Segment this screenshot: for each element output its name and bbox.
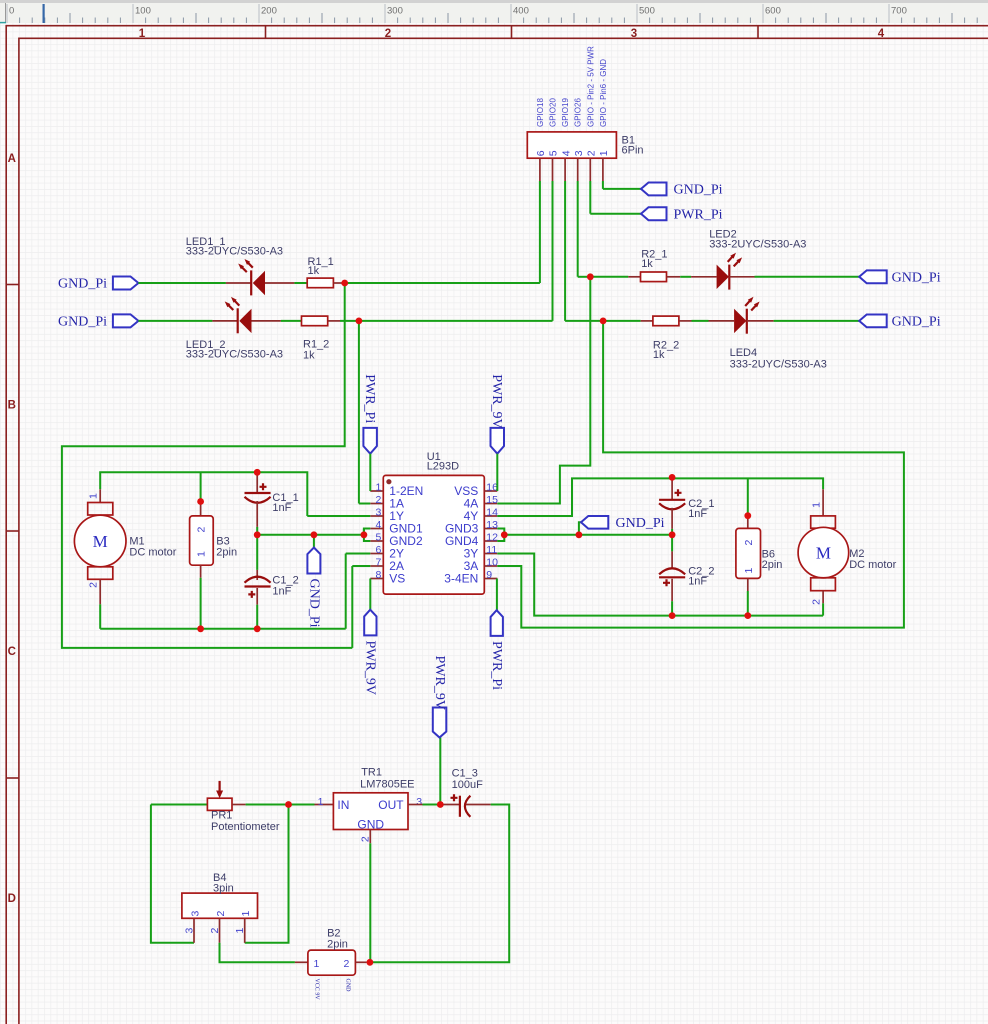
wire left loop to PR1 xyxy=(151,804,208,806)
wire 4A net (row1 right to U1 pin15) xyxy=(497,277,590,504)
U1 pin 4 stub xyxy=(370,528,383,530)
wire to PWR_9V flag xyxy=(439,738,441,805)
svg-text:5: 5 xyxy=(548,150,560,156)
svg-text:1: 1 xyxy=(810,502,822,508)
svg-text:PR1: PR1 xyxy=(211,809,232,821)
svg-text:400: 400 xyxy=(513,6,529,17)
flag GND_Pi (row2 left) xyxy=(113,314,138,327)
U1 pin 13 stub xyxy=(484,528,497,530)
svg-text:1k: 1k xyxy=(303,350,315,362)
svg-text:6: 6 xyxy=(535,150,547,156)
wire outer loop left (R1_1 to U1 pin7) xyxy=(62,283,352,648)
wire 2A from outer loop xyxy=(352,565,370,567)
B1 pin 4 stub xyxy=(564,158,566,181)
wire row2 to B1 pin5 xyxy=(359,320,553,322)
U1 GND3/GND4 tie xyxy=(497,529,504,542)
flag PWR_Pi (top) xyxy=(641,207,667,220)
svg-text:4: 4 xyxy=(375,519,381,531)
wire to PWR_Pi flag xyxy=(590,213,641,215)
U1 pin 8 stub xyxy=(370,578,383,580)
svg-text:2: 2 xyxy=(209,928,221,934)
svg-text:13: 13 xyxy=(486,519,498,531)
junction B3 pin1 xyxy=(197,625,204,632)
svg-text:500: 500 xyxy=(639,6,655,17)
junction B3 pin2 xyxy=(197,498,204,505)
wire M1 bottom net xyxy=(100,628,346,630)
flag GND_Pi (left motor section) xyxy=(313,535,315,548)
frame column dividers xyxy=(265,26,267,39)
junction row1 right xyxy=(587,273,594,280)
svg-text:333-2UYC/S530-A3: 333-2UYC/S530-A3 xyxy=(186,348,283,360)
svg-text:5: 5 xyxy=(375,532,381,544)
U1 orientation dot xyxy=(386,479,391,484)
svg-text:3: 3 xyxy=(631,28,637,40)
wire row1 to B1 pin6 xyxy=(345,282,540,284)
svg-text:11: 11 xyxy=(486,544,497,556)
PR1 wiper arrow xyxy=(219,781,221,793)
svg-text:8: 8 xyxy=(375,569,381,581)
LED1_2 arrow 2 xyxy=(227,304,233,310)
U1 pin 5 stub xyxy=(370,540,383,542)
wire PR1 to TR1 xyxy=(246,804,289,806)
wire LED2 to GND flag xyxy=(755,276,860,278)
svg-text:2: 2 xyxy=(810,599,822,605)
svg-text:2: 2 xyxy=(385,28,391,40)
capacitor C2_1 1nF xyxy=(671,477,673,499)
B4 pin 3 stub xyxy=(193,918,195,943)
svg-text:D: D xyxy=(8,893,16,905)
svg-text:1nF: 1nF xyxy=(688,575,707,587)
svg-text:1k: 1k xyxy=(653,349,665,361)
U1 pin 6 stub xyxy=(370,553,383,555)
svg-text:1nF: 1nF xyxy=(272,502,291,514)
ruler background xyxy=(0,0,988,23)
svg-text:2pin: 2pin xyxy=(327,938,348,950)
svg-text:7: 7 xyxy=(375,557,381,569)
B1 pin 6 stub xyxy=(539,158,541,181)
svg-text:14: 14 xyxy=(486,507,498,519)
svg-text:1k: 1k xyxy=(641,258,653,270)
svg-text:TR1: TR1 xyxy=(361,767,382,779)
wire B1 pin5 down xyxy=(552,181,554,321)
B1 pin 5 stub xyxy=(552,158,554,181)
wire B6 pin2 up xyxy=(747,478,749,515)
capacitor C1_2 1nF xyxy=(256,535,258,570)
wire R2_1 to LED2 xyxy=(680,276,691,278)
B1 pin 1 stub xyxy=(602,158,604,181)
flag PWR_9V (above U1 pin16) xyxy=(491,428,505,454)
wire R1_2 net to U1 pin2 xyxy=(358,321,360,504)
svg-text:3: 3 xyxy=(189,911,201,917)
svg-text:VS: VS xyxy=(389,572,405,586)
wire flag to U1 pin1 xyxy=(369,454,371,491)
svg-text:100: 100 xyxy=(135,6,151,17)
motor M1 xyxy=(99,489,101,502)
U1 pin 9 stub xyxy=(484,578,497,580)
flag GND_Pi (row1 left) xyxy=(113,277,138,290)
svg-text:GND_Pi: GND_Pi xyxy=(674,183,723,198)
junction row2/R1_2 xyxy=(356,318,363,325)
LED LED1_1 xyxy=(226,282,251,284)
frame row dividers xyxy=(6,284,19,286)
LED2 arrow 1 xyxy=(728,255,734,262)
wire to R2_2 xyxy=(603,320,641,322)
ruler cursor mark xyxy=(43,4,45,23)
svg-text:GPIO20: GPIO20 xyxy=(549,98,558,127)
wire B1 pin4 to junction xyxy=(565,320,603,322)
C1_3 plus sign xyxy=(451,794,458,801)
svg-text:GND_Pi: GND_Pi xyxy=(892,315,941,330)
flag GND_Pi (right of U1) xyxy=(581,516,608,529)
IC U1 L293D xyxy=(383,475,484,594)
resistor R2_1 1k xyxy=(628,276,640,278)
wire U1 pin8 down xyxy=(369,579,371,610)
svg-text:333-2UYC/S530-A3: 333-2UYC/S530-A3 xyxy=(186,245,283,257)
svg-text:1: 1 xyxy=(196,551,208,557)
C1_1 plus sign xyxy=(260,483,267,490)
flag GND_Pi (top) xyxy=(641,183,667,196)
ruler ticks xyxy=(6,4,8,23)
svg-text:1nF: 1nF xyxy=(688,508,707,520)
flag GND_Pi (row1 right) xyxy=(859,270,887,283)
junction row2 right xyxy=(600,318,607,325)
LED1_2 arrow 1 xyxy=(233,299,239,305)
svg-text:GND: GND xyxy=(345,979,351,993)
svg-text:6Pin: 6Pin xyxy=(622,144,644,156)
wire row1 left xyxy=(138,282,226,284)
junction row1/R1_1 xyxy=(341,280,348,287)
wire M1 top net xyxy=(100,472,307,516)
wire to GND_Pi flag xyxy=(603,188,641,190)
U1 pin 16 stub xyxy=(484,490,497,492)
resistor R2_2 1k xyxy=(641,320,653,322)
svg-text:Potentiometer: Potentiometer xyxy=(211,821,280,833)
svg-text:3: 3 xyxy=(573,150,585,156)
wire M2 pin2 down xyxy=(822,603,824,615)
LED LED1_2 xyxy=(212,320,237,322)
wire M1 pin2 down xyxy=(99,604,101,629)
svg-text:DC motor: DC motor xyxy=(849,559,896,571)
svg-text:VCC 9V: VCC 9V xyxy=(314,979,320,1001)
svg-text:PWR_9V: PWR_9V xyxy=(489,374,504,428)
wire LED1_2 to R1_2 xyxy=(281,320,302,322)
wire flag to U1 pin16 xyxy=(496,454,498,491)
svg-text:GND_Pi: GND_Pi xyxy=(892,271,941,286)
U1 pin 14 stub xyxy=(484,515,497,517)
wire 1Y to M1 top net xyxy=(307,515,370,517)
wire B1 pin2 down xyxy=(589,181,591,214)
junction PR1/TR1/B4 xyxy=(285,801,292,808)
svg-text:GND_Pi: GND_Pi xyxy=(306,579,321,628)
svg-text:333-2UYC/S530-A3: 333-2UYC/S530-A3 xyxy=(730,358,827,370)
svg-text:2pin: 2pin xyxy=(762,559,783,571)
TR1 GND pin stub xyxy=(369,830,371,844)
wire B3 pin1 down xyxy=(200,578,202,629)
resistor R1_2 1k xyxy=(302,316,328,326)
U1 pin 12 stub xyxy=(484,540,497,542)
svg-text:PWR_Pi: PWR_Pi xyxy=(489,641,504,690)
junction C1_1 top xyxy=(254,469,261,476)
svg-text:3: 3 xyxy=(416,796,422,808)
svg-text:LED4: LED4 xyxy=(730,347,758,359)
svg-text:2: 2 xyxy=(196,527,208,533)
svg-text:M: M xyxy=(816,543,831,562)
svg-text:GND_Pi: GND_Pi xyxy=(616,516,665,531)
wire B4 pin1 riser xyxy=(245,805,289,943)
svg-text:GPIO - Pin2 - 5V PWR: GPIO - Pin2 - 5V PWR xyxy=(586,46,595,127)
LED LED2 xyxy=(691,276,717,278)
svg-text:2: 2 xyxy=(375,494,381,506)
LED4 arrow 2 xyxy=(751,304,757,311)
junction C2_2 bottom xyxy=(669,612,676,619)
svg-text:2: 2 xyxy=(88,582,100,588)
capacitor C1_3 100uF xyxy=(440,804,460,806)
wire B1 pin3 to junction xyxy=(578,276,591,278)
wire B1 pin1 down xyxy=(602,181,604,189)
svg-text:2: 2 xyxy=(743,540,755,546)
C1_2 plus sign xyxy=(248,591,255,598)
wire to GND flag xyxy=(579,522,581,535)
U1 pin 11 stub xyxy=(484,553,497,555)
svg-text:PWR_9V: PWR_9V xyxy=(432,656,447,710)
LED1_1 arrow 1 xyxy=(247,262,253,268)
junction GND flag right xyxy=(576,531,583,538)
svg-text:4: 4 xyxy=(878,28,885,40)
svg-text:333-2UYC/S530-A3: 333-2UYC/S530-A3 xyxy=(709,239,806,251)
C2_2 plus sign xyxy=(663,579,670,586)
svg-text:3: 3 xyxy=(184,928,196,934)
wire left loop xyxy=(151,805,194,943)
svg-text:LM7805EE: LM7805EE xyxy=(360,778,414,790)
voltage regulator TR1 LM7805EE xyxy=(289,804,315,806)
junction GND flag left xyxy=(311,531,318,538)
svg-text:200: 200 xyxy=(261,6,277,17)
LED1_1 arrow 2 xyxy=(241,266,247,272)
junction TR1 out xyxy=(437,801,444,808)
LED2 arrow 2 xyxy=(734,260,740,267)
svg-text:15: 15 xyxy=(486,494,498,506)
LED LED4 xyxy=(709,320,735,322)
svg-text:IN: IN xyxy=(337,798,349,812)
wire row2 left xyxy=(138,320,212,322)
junction C2_1 top xyxy=(669,474,676,481)
capacitor C2_2 1nF xyxy=(671,535,673,552)
B1 pin 3 stub xyxy=(577,158,579,181)
svg-text:1: 1 xyxy=(743,568,755,574)
svg-text:100uF: 100uF xyxy=(452,779,483,791)
junction B6 pin2 xyxy=(744,512,751,519)
LED4 arrow 1 xyxy=(745,299,751,306)
svg-text:PWR_Pi: PWR_Pi xyxy=(674,207,723,222)
wire LED4 to GND flag xyxy=(774,320,860,322)
wire B4 pin2 to B2 pin1 xyxy=(220,943,295,963)
wire B3 pin2 up xyxy=(200,472,202,501)
junction C1 mid xyxy=(254,531,261,538)
svg-text:M: M xyxy=(93,532,108,551)
svg-text:3pin: 3pin xyxy=(213,883,234,895)
U1 pin 1 stub xyxy=(370,490,383,492)
connector B1 6Pin xyxy=(527,132,616,158)
svg-text:6: 6 xyxy=(375,544,381,556)
svg-text:1: 1 xyxy=(598,150,610,156)
svg-text:1nF: 1nF xyxy=(272,585,291,597)
svg-text:A: A xyxy=(8,153,16,165)
U1 pin 15 stub xyxy=(484,503,497,505)
junction B6 pin1 xyxy=(744,612,751,619)
flag PWR_Pi (above U1 pin1) xyxy=(363,428,377,454)
flag GND_Pi (row2 right) xyxy=(859,315,887,328)
wire TR1 GND down xyxy=(369,843,371,962)
svg-text:GPIO26: GPIO26 xyxy=(574,98,583,127)
wire 2Y to M1 bottom net xyxy=(346,553,371,555)
connector B2 2pin xyxy=(295,961,308,963)
svg-text:L293D: L293D xyxy=(427,461,459,473)
capacitor C1_1 1nF xyxy=(256,472,258,493)
svg-text:0: 0 xyxy=(9,6,14,17)
wire U1 pin9 down xyxy=(496,579,498,611)
svg-text:1k: 1k xyxy=(308,265,320,277)
svg-text:B: B xyxy=(8,400,16,412)
wire R2_2 to LED4 xyxy=(692,320,709,322)
svg-text:R1_2: R1_2 xyxy=(303,338,329,350)
junction GND tie left xyxy=(361,531,368,538)
svg-text:1: 1 xyxy=(139,28,146,40)
U1 pin 10 stub xyxy=(484,565,497,567)
svg-text:4: 4 xyxy=(560,150,572,156)
U1 pin 3 stub xyxy=(370,515,383,517)
svg-text:3-4EN: 3-4EN xyxy=(444,572,478,586)
svg-text:2: 2 xyxy=(586,150,598,156)
svg-text:PWR_9V: PWR_9V xyxy=(363,641,378,695)
svg-text:C: C xyxy=(8,646,16,658)
junction C1_2 bottom xyxy=(254,625,261,632)
svg-text:1: 1 xyxy=(314,958,320,970)
junction B2 pin2 xyxy=(367,959,374,966)
svg-text:700: 700 xyxy=(891,6,907,17)
svg-text:PWR_Pi: PWR_Pi xyxy=(362,374,377,423)
svg-text:GND_Pi: GND_Pi xyxy=(58,315,107,330)
U1 pin 7 stub xyxy=(370,565,383,567)
svg-text:1: 1 xyxy=(240,911,252,917)
svg-text:DC motor: DC motor xyxy=(129,546,176,558)
svg-text:3: 3 xyxy=(375,507,381,519)
junction GND tie right xyxy=(501,531,508,538)
wire to R2_1 xyxy=(590,276,628,278)
motor M2 xyxy=(822,489,824,516)
B1 pin 2 stub xyxy=(589,158,591,181)
svg-text:2pin: 2pin xyxy=(216,546,237,558)
connector B4 3pin xyxy=(182,893,258,918)
svg-text:GND_Pi: GND_Pi xyxy=(58,277,107,292)
svg-text:GPIO - Pin6 - GND: GPIO - Pin6 - GND xyxy=(599,59,608,127)
C2_1 plus sign xyxy=(675,489,682,496)
svg-text:GPIO18: GPIO18 xyxy=(536,98,545,127)
wire B1 pin6 down xyxy=(539,181,541,283)
svg-text:2: 2 xyxy=(215,911,227,917)
wire GND row right xyxy=(504,534,579,536)
wire 3Y net (U1 pin11 to M2 pin2) xyxy=(497,554,823,616)
svg-text:1: 1 xyxy=(234,928,246,934)
junction C2 mid xyxy=(669,531,676,538)
resistor R1_1 1k xyxy=(307,278,333,288)
wire GND row to C2 mid xyxy=(579,534,672,536)
wire 3A net (row2 right loop) xyxy=(497,321,904,628)
svg-text:GPIO19: GPIO19 xyxy=(561,98,570,127)
U1 GND1/GND2 tie xyxy=(364,529,370,542)
wire GND row left xyxy=(257,534,364,536)
U1 pin 2 stub xyxy=(370,503,383,505)
svg-text:600: 600 xyxy=(765,6,781,17)
svg-text:2: 2 xyxy=(344,958,350,970)
B4 pin 1 stub xyxy=(244,918,246,943)
svg-text:1: 1 xyxy=(375,482,381,494)
svg-text:10: 10 xyxy=(486,557,498,569)
wire B1 pin3 down xyxy=(577,181,579,277)
wire LED1_1 to R1_1 xyxy=(294,282,307,284)
wire B6 pin1 down xyxy=(747,591,749,616)
svg-text:C1_3: C1_3 xyxy=(452,767,478,779)
svg-text:1: 1 xyxy=(88,493,100,499)
B4 pin 2 stub xyxy=(219,918,221,943)
svg-text:300: 300 xyxy=(387,6,403,17)
svg-text:1: 1 xyxy=(318,796,324,808)
wire 4Y net (U1 pin14 to M2 pin1) xyxy=(497,478,823,516)
svg-text:12: 12 xyxy=(486,532,498,544)
svg-text:OUT: OUT xyxy=(378,798,404,812)
wire B1 pin4 down xyxy=(564,181,566,321)
wire right bottom loop xyxy=(370,805,509,963)
svg-text:9: 9 xyxy=(486,569,492,581)
